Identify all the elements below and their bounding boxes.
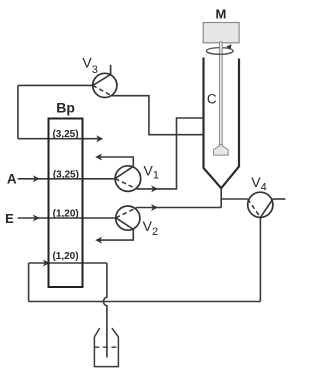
wire V2 top exit to vessel spout <box>137 207 221 209</box>
arrowhead feed E <box>33 215 40 222</box>
svg-text:(1,20): (1,20) <box>53 209 79 220</box>
wire V1 top branch with left arrow <box>98 157 133 166</box>
svg-text:A: A <box>7 171 17 186</box>
arrowhead line1 <box>96 135 103 142</box>
wire left vertical bus <box>17 85 19 138</box>
svg-text:(3,25): (3,25) <box>53 169 79 180</box>
svg-text:C: C <box>207 91 217 106</box>
wire V3 left port to left bus <box>18 84 93 86</box>
wire V2 bottom branch with left arrow <box>98 229 133 240</box>
column Bp <box>49 119 83 288</box>
arrowhead feed A <box>33 175 40 182</box>
wire spout to V4 left port <box>221 198 248 200</box>
wire left recycle riser <box>28 263 30 302</box>
rotation ellipse front arc <box>207 51 233 54</box>
wire feed E line into column and to V2 <box>18 217 116 219</box>
vessel C walls <box>204 58 240 189</box>
wire V4 bottom vertical <box>259 217 261 301</box>
arrowhead line4 <box>43 260 50 267</box>
wire V4 right port outlet <box>273 198 286 200</box>
motor M box <box>203 23 239 43</box>
svg-text:Bp: Bp <box>56 99 75 115</box>
arrowhead V2 bottom branch <box>95 237 102 244</box>
valve V4 <box>248 192 273 217</box>
wire feed A line into column and to V1 <box>18 178 115 180</box>
wire line4 through column to flask drop <box>49 262 107 264</box>
wire V3 bottom exit to vessel C <box>112 96 203 135</box>
wire recycle line4 into column (1,20) bottom <box>29 262 46 264</box>
wire flask drop with hop over bottom bus <box>104 263 107 358</box>
wire V1 bottom exit to riser <box>136 118 202 189</box>
wire bottom bus from V4 <box>29 301 261 303</box>
arrowhead V1 bottom exit <box>151 185 158 192</box>
stirrer paddle <box>214 145 229 156</box>
arrowhead V2 top exit <box>151 204 158 211</box>
wire line1 through column (3,25) top <box>18 138 100 140</box>
valve V1 <box>115 166 141 192</box>
valve V3 <box>93 73 117 97</box>
svg-text:M: M <box>215 6 226 21</box>
svg-text:(3,25): (3,25) <box>52 129 78 140</box>
svg-text:(1,20): (1,20) <box>52 251 78 262</box>
collection flask <box>94 328 118 367</box>
arrowhead V1 top branch <box>95 154 102 161</box>
wire vessel spout <box>220 188 222 207</box>
svg-text:E: E <box>5 211 14 226</box>
wire V3 stem <box>110 65 112 75</box>
stirrer shaft <box>220 42 223 146</box>
flask liquid level dashed <box>94 346 118 348</box>
valve V2 <box>116 206 140 230</box>
rotation ellipse <box>206 48 233 55</box>
rotation arrowhead <box>226 44 232 49</box>
